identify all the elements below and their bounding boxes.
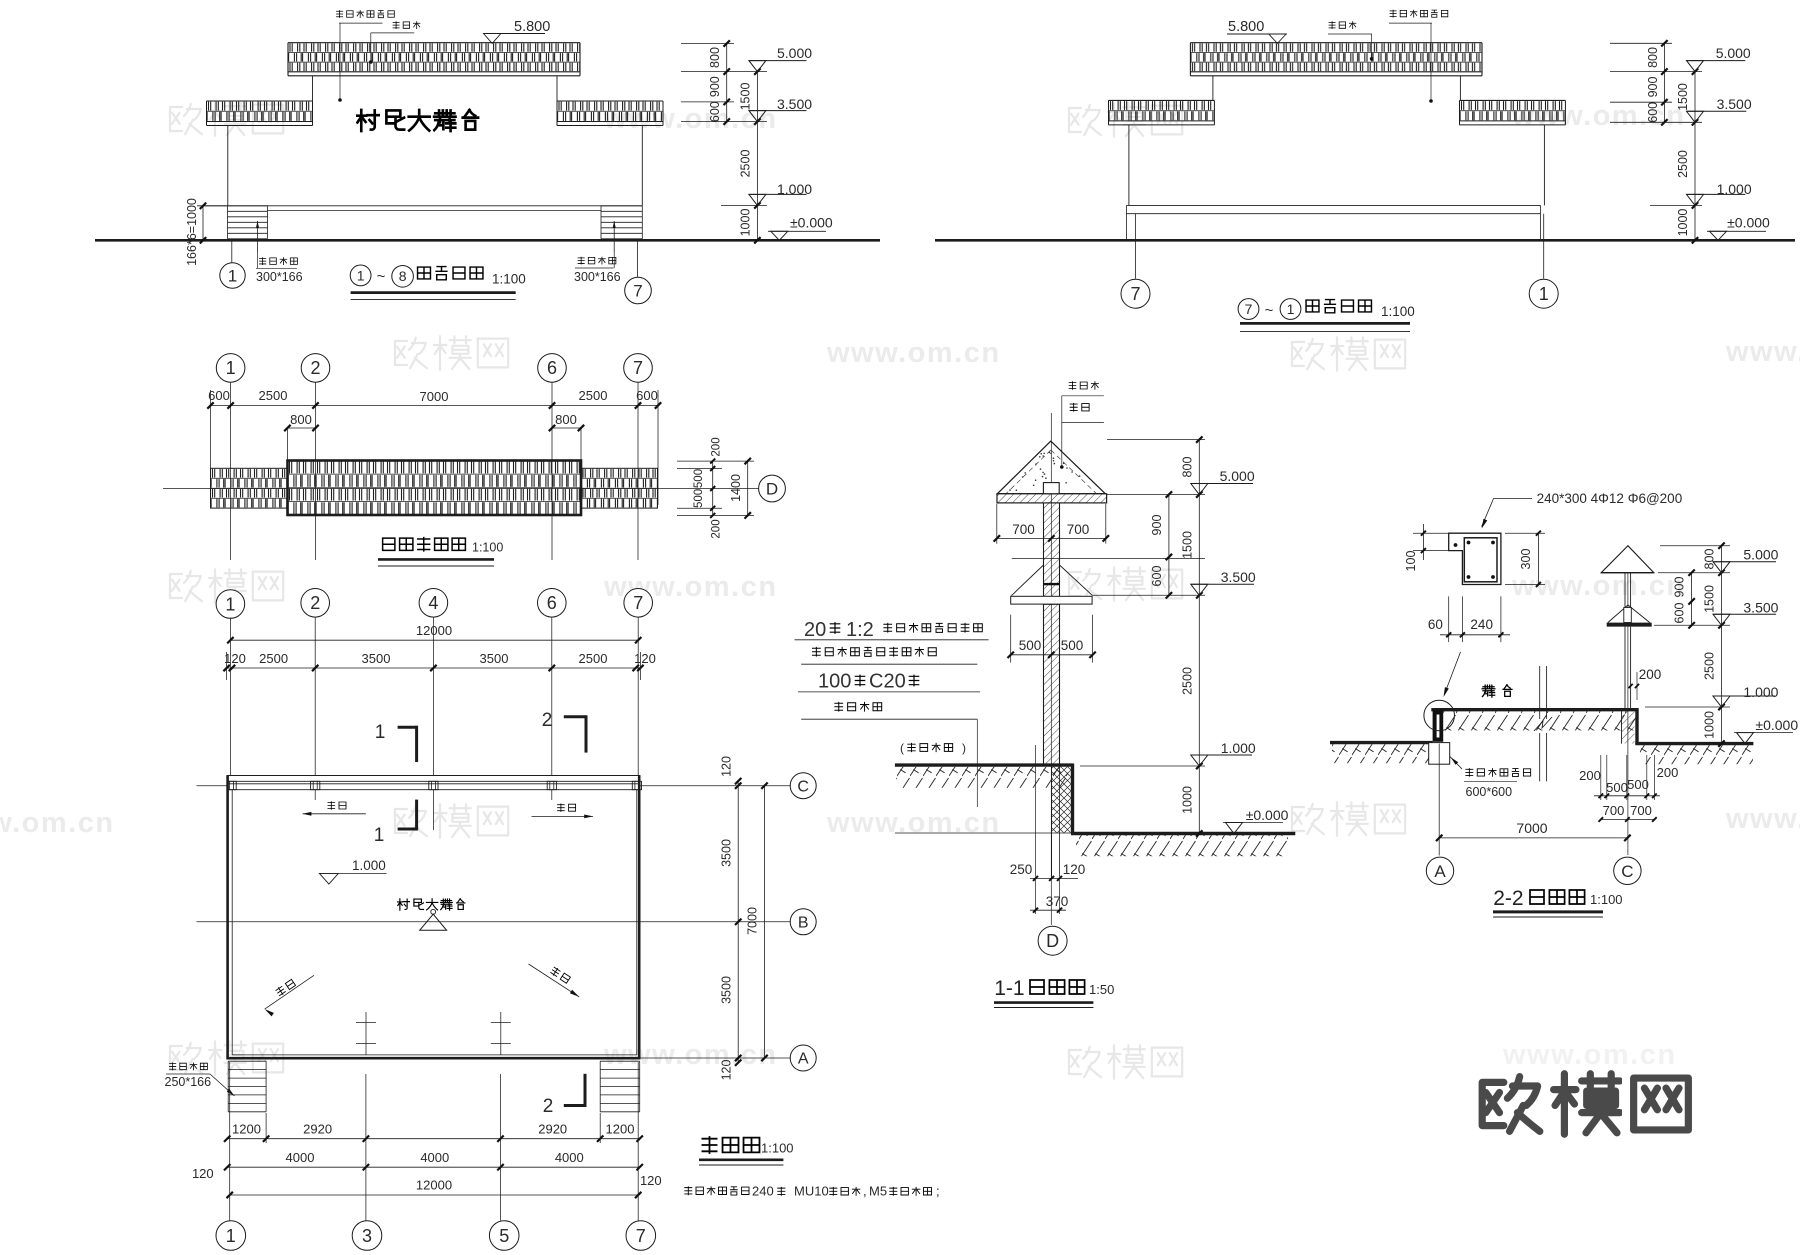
- floor plan: bottom grid bubbles 1 3 5 7: [216, 1221, 656, 1251]
- svg-text:800: 800: [1646, 47, 1660, 68]
- elevation 1-8: level 3.500: [749, 111, 766, 122]
- roof plan: 800 dims: [284, 412, 584, 462]
- watermark row D: [0, 802, 1800, 839]
- section 2-2: column upper: [1625, 573, 1631, 623]
- svg-text:1.000: 1.000: [1221, 740, 1256, 756]
- svg-text:7000: 7000: [746, 907, 760, 935]
- floor plan: section marker 1 lower: [374, 800, 418, 846]
- svg-text:800: 800: [555, 412, 577, 427]
- svg-text:3.500: 3.500: [1743, 600, 1778, 616]
- svg-text:3.500: 3.500: [777, 96, 812, 112]
- section 1-1: mid canopy: [1011, 558, 1205, 604]
- floor plan: top dim row 2: [223, 651, 655, 680]
- section 1-1: soil hatch under platform: [896, 767, 1068, 788]
- elevation 1-8: left steps: [228, 206, 268, 252]
- floor plan: grid line C stubs: [197, 785, 791, 787]
- svg-text:4000: 4000: [555, 1150, 584, 1165]
- section 2-2: mid break lines: [1534, 666, 1552, 781]
- elevation 1-8: left height dim 166*6=1000: [185, 198, 228, 266]
- svg-text:1-1: 1-1: [994, 977, 1024, 1000]
- section 2-2: level 3.500: [1713, 614, 1730, 625]
- svg-text:1200: 1200: [232, 1122, 261, 1137]
- svg-text:900: 900: [1646, 77, 1660, 98]
- floor plan: bottom dim row 2: [192, 1150, 662, 1188]
- elevation 7-1: ground line: [935, 239, 1795, 242]
- elevation 1-8: right dimension stack: [681, 40, 767, 243]
- svg-text:500: 500: [693, 489, 705, 508]
- section 1-1: top slab hatched: [997, 494, 1107, 503]
- watermark row A: [170, 100, 1686, 137]
- elevation 1-8: 5.800 level mark: [484, 19, 551, 43]
- elevation 7-1: right dimension stack: [1610, 40, 1702, 243]
- section 1-1: roof cone: [997, 441, 1105, 494]
- section 1-1: center axis: [1050, 413, 1052, 925]
- elevation 7-1: level 5.000: [1687, 61, 1704, 72]
- svg-text:±0.000: ±0.000: [1246, 807, 1289, 823]
- elevation 1-8: grid bubble 7: [625, 240, 652, 304]
- svg-text:,: ,: [863, 1184, 867, 1199]
- svg-text:2500: 2500: [579, 651, 608, 666]
- svg-text:2500: 2500: [579, 388, 608, 403]
- svg-text:1: 1: [1539, 284, 1549, 304]
- svg-text:3500: 3500: [719, 839, 733, 867]
- svg-text:7: 7: [633, 281, 642, 300]
- svg-text:5.000: 5.000: [777, 45, 812, 61]
- svg-text:1:100: 1:100: [1381, 304, 1415, 319]
- roof plan: title: [378, 537, 503, 566]
- floor plan: section marker 1 upper: [375, 722, 417, 762]
- svg-text:(: (: [900, 741, 904, 755]
- svg-text:1: 1: [357, 267, 365, 283]
- section 2-2: wall below platform at C: [1622, 710, 1635, 744]
- svg-text:7: 7: [633, 593, 643, 613]
- floor plan: bottom steps right: [600, 1061, 640, 1112]
- svg-text:120: 120: [640, 1173, 662, 1188]
- section 2-2: title: [1493, 887, 1623, 917]
- svg-text:1: 1: [375, 722, 386, 743]
- svg-text:3.500: 3.500: [1717, 96, 1752, 112]
- section 2-2: small canopy: [1607, 605, 1652, 625]
- elevation 1-8: level 5.000: [749, 61, 766, 72]
- svg-text:6: 6: [547, 358, 557, 378]
- section 2-2: stage platform: [1431, 710, 1637, 742]
- elevation 7-1: top label white wall paint: [1389, 10, 1448, 103]
- svg-text:1000: 1000: [1180, 786, 1194, 814]
- elevation 1-8: left side roof: [207, 101, 313, 126]
- svg-text:7: 7: [636, 1226, 646, 1246]
- elevation 1-8: wall below central roof: [312, 76, 314, 101]
- elevation 1-8: right steps: [601, 206, 642, 252]
- section 1-1: grid bubble D: [1038, 926, 1067, 955]
- svg-text:5: 5: [499, 1226, 509, 1246]
- svg-text:8: 8: [399, 268, 407, 284]
- svg-text:1: 1: [228, 266, 237, 285]
- svg-text:200: 200: [1657, 765, 1679, 780]
- svg-text:±0.000: ±0.000: [1727, 215, 1770, 231]
- svg-text:www.om.cn: www.om.cn: [0, 807, 115, 839]
- elevation 1-8: top label tile: [369, 21, 420, 64]
- floor plan: steps label bottom left: [165, 1063, 235, 1096]
- svg-text:D: D: [1046, 931, 1059, 951]
- svg-text:7: 7: [633, 358, 643, 378]
- svg-text:500: 500: [693, 469, 705, 488]
- svg-text:2920: 2920: [303, 1122, 332, 1137]
- svg-text:250: 250: [1010, 862, 1033, 877]
- section 2-2: column lower: [1625, 627, 1631, 710]
- svg-text:700: 700: [1603, 803, 1625, 818]
- section 2-2: leader to stage edge: [1444, 652, 1461, 697]
- section 2-2: grid bubbles A C: [1426, 857, 1641, 884]
- svg-text:120: 120: [192, 1166, 214, 1181]
- svg-text:2500: 2500: [1703, 652, 1717, 680]
- svg-text:7: 7: [1130, 284, 1140, 304]
- svg-text:900: 900: [1150, 515, 1164, 536]
- elevation 7-1: walls below central roof: [1212, 76, 1214, 101]
- svg-text:100: 100: [1404, 551, 1418, 572]
- svg-text:~: ~: [1265, 302, 1274, 319]
- elevation 7-1: level 1.000: [1687, 194, 1704, 205]
- watermark row E: [170, 1039, 1677, 1079]
- floor plan: grid verticals top: [230, 618, 638, 776]
- svg-text:700: 700: [1012, 522, 1035, 537]
- svg-text:200: 200: [1639, 667, 1662, 682]
- elevation 1-8: central roof band with tile hatch: [288, 43, 580, 76]
- section 2-2: step down and right ground: [1635, 708, 1753, 764]
- svg-text:6: 6: [547, 593, 557, 613]
- svg-text:1:100: 1:100: [1590, 892, 1623, 907]
- svg-text:B: B: [798, 914, 809, 931]
- svg-text:500: 500: [1019, 638, 1042, 653]
- elevation 7-1: level 3.500: [1687, 111, 1704, 122]
- svg-text:240: 240: [1470, 617, 1493, 632]
- elevation 7-1: top label 5.800: [1227, 19, 1287, 43]
- section 1-1: left spec text block: [795, 619, 989, 807]
- section 2-2: bottom dim 7000: [1436, 744, 1631, 856]
- section 2-2: level 1.000: [1713, 696, 1730, 707]
- svg-text:C20: C20: [869, 671, 906, 693]
- svg-text:800: 800: [1703, 549, 1717, 570]
- roof plan: center axis line: [163, 488, 759, 490]
- svg-text:900: 900: [708, 76, 722, 97]
- svg-text:3500: 3500: [480, 651, 509, 666]
- section 1-1: level 3.500: [1191, 584, 1208, 595]
- elevation 7-1: central roof band: [1190, 43, 1482, 76]
- section 1-1: foundation below platform: [1036, 745, 1072, 877]
- svg-text:2-2: 2-2: [1493, 887, 1523, 910]
- elevation 7-1: grid bubble 7: [1121, 214, 1150, 309]
- svg-text:1500: 1500: [1180, 531, 1194, 559]
- svg-text:3500: 3500: [719, 976, 733, 1004]
- svg-text:600*600: 600*600: [1466, 785, 1513, 799]
- svg-text:120: 120: [1063, 862, 1086, 877]
- floor plan: top grid bubbles 1 2 4 6 7: [216, 589, 652, 619]
- svg-text:www.om.cn: www.om.cn: [826, 337, 1001, 369]
- svg-text:7: 7: [1245, 301, 1253, 317]
- roof plan: grid bubble D: [759, 475, 786, 502]
- elevation 1-8: level +-0.000: [768, 215, 833, 241]
- svg-text:300*166: 300*166: [574, 270, 621, 284]
- svg-text:120: 120: [224, 651, 246, 666]
- floor plan: bottom dim row 1: [224, 1113, 643, 1143]
- roof plan: grid leader lines: [211, 382, 659, 560]
- section 2-2: beam dim 60 240: [1428, 596, 1510, 642]
- svg-text:1: 1: [226, 358, 236, 378]
- svg-text:;: ;: [936, 1184, 940, 1199]
- section 2-2: stage label: [1482, 685, 1512, 697]
- svg-text:500: 500: [1061, 638, 1084, 653]
- elevation 1-8: ground line: [95, 239, 880, 242]
- svg-text:300: 300: [1519, 549, 1533, 570]
- svg-text:3.500: 3.500: [1221, 569, 1256, 585]
- svg-text:2: 2: [543, 1096, 554, 1117]
- section 1-1: platform and ground: [895, 764, 1295, 834]
- floor plan: top dim 12000: [227, 623, 641, 643]
- svg-text:200: 200: [711, 519, 723, 538]
- big dark om.cn logo bottom right: [1482, 1074, 1688, 1134]
- svg-text:2: 2: [542, 710, 553, 731]
- section 2-2: beam dim 300: [1505, 531, 1545, 587]
- svg-text:5.800: 5.800: [514, 19, 550, 35]
- svg-text:800: 800: [290, 412, 312, 427]
- section 2-2: foundation под stage edge: [1429, 743, 1531, 799]
- svg-text:1: 1: [374, 825, 385, 846]
- svg-text:1: 1: [1287, 301, 1295, 317]
- svg-text:~: ~: [377, 268, 386, 285]
- elevation 1-8: big stage name text: [357, 110, 478, 131]
- section 1-1: cement floor label: [900, 741, 966, 755]
- section 1-1: level +-0.000: [1223, 807, 1289, 834]
- svg-text:2500: 2500: [739, 150, 753, 178]
- watermark row C: [170, 567, 1686, 603]
- svg-text:200: 200: [711, 437, 723, 456]
- svg-text:1500: 1500: [739, 83, 753, 111]
- floor plan: outer walls: [227, 776, 641, 1060]
- elevation 1-8: title: [350, 265, 526, 300]
- section 1-1: 500 500 dim: [1008, 615, 1096, 663]
- elevation 1-8: steps label left: [256, 252, 303, 284]
- svg-text:www.om.cn: www.om.cn: [1502, 1039, 1677, 1071]
- floor plan: right dim stack: [719, 756, 767, 1080]
- svg-text:±0.000: ±0.000: [1755, 717, 1798, 733]
- svg-text:1000: 1000: [739, 209, 753, 237]
- svg-text:800: 800: [708, 47, 722, 68]
- floor plan: grid stubs inside: [315, 790, 552, 1055]
- svg-text:1:2: 1:2: [846, 619, 874, 641]
- svg-text:700: 700: [1630, 803, 1652, 818]
- svg-text:5.000: 5.000: [1220, 468, 1255, 484]
- floor plan: stage name small + mark: [398, 899, 465, 931]
- svg-text:60: 60: [1428, 617, 1443, 632]
- svg-text:600: 600: [208, 388, 230, 403]
- svg-text:600: 600: [1673, 603, 1687, 624]
- floor plan: title: [699, 1136, 794, 1165]
- svg-text:2920: 2920: [538, 1122, 567, 1137]
- elevation 7-1: left side roof: [1109, 100, 1215, 125]
- elevation 1-8: grid bubble 1: [220, 240, 245, 288]
- elevation 7-1: title: [1238, 299, 1415, 332]
- svg-text:120: 120: [719, 756, 733, 777]
- svg-text:240: 240: [752, 1184, 774, 1199]
- svg-text:7000: 7000: [1516, 820, 1547, 836]
- svg-text:4000: 4000: [420, 1150, 449, 1165]
- floor plan: grid line B across: [197, 921, 791, 923]
- svg-text:2500: 2500: [1676, 150, 1690, 178]
- svg-text:1:100: 1:100: [492, 272, 526, 287]
- svg-text:MU10: MU10: [794, 1184, 829, 1199]
- section 2-2: beam detail outline: [1449, 533, 1501, 584]
- svg-text:2: 2: [310, 358, 320, 378]
- svg-text:4: 4: [428, 593, 438, 613]
- svg-text:1: 1: [226, 1226, 236, 1246]
- section 1-1: level 1.000: [1191, 755, 1208, 766]
- floor plan: drainage arrows upper: [303, 801, 593, 818]
- floor plan: section marker 2 upper: [542, 710, 586, 753]
- elevation 7-1: top label tile: [1328, 21, 1373, 60]
- svg-text:900: 900: [1673, 577, 1687, 598]
- section 1-1: 700 700 dim: [994, 504, 1109, 544]
- elevation 7-1: right side roof: [1460, 100, 1566, 125]
- roof plan: top dimension line: [207, 388, 661, 409]
- section 2-2: beam dim 100: [1404, 524, 1449, 571]
- svg-text:800: 800: [1180, 457, 1194, 478]
- roof plan: right narrow roof strip: [581, 468, 658, 508]
- section 2-2: bottom dims row1 200 500 500 200: [1579, 755, 1678, 800]
- svg-text:C: C: [1621, 862, 1633, 881]
- svg-text:3: 3: [362, 1226, 372, 1246]
- elevation 1-8: columns: [227, 126, 229, 206]
- section 1-1: soil hatch under lower ground: [1076, 835, 1288, 856]
- svg-text:2500: 2500: [1180, 667, 1194, 695]
- section 2-2: column axis: [1627, 546, 1629, 855]
- floor plan: level 1.000 marker: [319, 858, 386, 884]
- svg-text:1500: 1500: [1676, 83, 1690, 111]
- svg-text:www.om.cn: www.om.cn: [826, 807, 1001, 839]
- elevation 1-8: level 1.000: [749, 194, 766, 205]
- svg-text:120: 120: [634, 651, 656, 666]
- svg-text:1400: 1400: [729, 474, 743, 502]
- elevation 1-8: right side roof: [557, 101, 663, 126]
- svg-text:www.om.cn: www.om.cn: [1725, 803, 1800, 835]
- floor plan: bottom steps left: [228, 1061, 266, 1112]
- svg-text:2500: 2500: [259, 651, 288, 666]
- floor plan: right grid bubbles C B A: [790, 773, 816, 1071]
- elevation 7-1: columns: [1128, 125, 1130, 205]
- elevation 1-8: steps label right: [574, 252, 621, 284]
- svg-text:240*300 4Φ12 Φ6@200: 240*300 4Φ12 Φ6@200: [1537, 491, 1683, 506]
- section 2-2: dim 200 at column: [1629, 667, 1662, 700]
- elevation 7-1: grid bubble 1: [1529, 214, 1558, 309]
- section 2-2: bottom dims row2 700 700: [1599, 803, 1657, 822]
- svg-text:700: 700: [1067, 522, 1090, 537]
- svg-text:500: 500: [1606, 780, 1628, 795]
- svg-text:C: C: [797, 778, 809, 795]
- section 1-1: column with hatch: [1044, 503, 1060, 765]
- svg-text:500: 500: [1627, 777, 1649, 792]
- svg-text:±0.000: ±0.000: [790, 215, 833, 231]
- svg-text:1: 1: [225, 594, 235, 614]
- svg-text:M5: M5: [869, 1184, 887, 1199]
- svg-text:): ): [962, 741, 966, 755]
- svg-text:A: A: [1434, 862, 1446, 881]
- svg-text:250*166: 250*166: [165, 1075, 212, 1089]
- svg-text:200: 200: [1579, 768, 1601, 783]
- section 1-1: dim 250 120: [1010, 862, 1086, 881]
- section 2-2: level 5.000: [1713, 562, 1730, 573]
- svg-text:1.000: 1.000: [1717, 181, 1752, 197]
- svg-text:370: 370: [1046, 894, 1069, 909]
- svg-text:3500: 3500: [362, 651, 391, 666]
- roof plan: left narrow roof strip: [211, 468, 288, 508]
- section 1-1: right dim stack: [1080, 436, 1205, 836]
- svg-text:1000: 1000: [1703, 711, 1717, 739]
- svg-text:166*6=1000: 166*6=1000: [185, 198, 199, 266]
- svg-text:600: 600: [1150, 566, 1164, 587]
- roof plan: right side dims 200 500 500 200: [677, 437, 754, 538]
- floor plan: bottom grid verticals: [230, 1062, 639, 1221]
- svg-text:5.000: 5.000: [1743, 547, 1778, 563]
- section 2-2: right dim stack: [1645, 543, 1730, 747]
- floor plan: section marker 2 lower: [543, 1074, 587, 1117]
- section 2-2: stage floor hatch: [1443, 711, 1637, 730]
- svg-text:1.000: 1.000: [1743, 684, 1778, 700]
- svg-text:1.000: 1.000: [777, 181, 812, 197]
- svg-text:300*166: 300*166: [256, 270, 303, 284]
- roof plan: central wide roof: [288, 461, 582, 516]
- floor plan: grid line A stub right: [640, 1057, 790, 1059]
- svg-text:5.800: 5.800: [1228, 19, 1264, 35]
- section 1-1: labels top: [1060, 381, 1104, 469]
- svg-text:1000: 1000: [1676, 209, 1690, 237]
- svg-text:1500: 1500: [1703, 585, 1717, 613]
- svg-text:D: D: [766, 479, 778, 498]
- svg-text:1:50: 1:50: [1089, 982, 1114, 997]
- svg-text:1200: 1200: [606, 1122, 635, 1137]
- section 2-2: ground left: [1330, 743, 1433, 764]
- section 2-2: beam leader text: [1482, 491, 1683, 529]
- section 1-1: title: [994, 977, 1114, 1008]
- svg-text:12000: 12000: [416, 1178, 452, 1193]
- floor plan: column marks on top wall: [227, 781, 642, 789]
- svg-text:7000: 7000: [420, 389, 449, 404]
- floor plan: masonry note: [684, 1184, 939, 1199]
- svg-text:2500: 2500: [259, 388, 288, 403]
- svg-text:600: 600: [708, 101, 722, 122]
- svg-text:600: 600: [636, 388, 658, 403]
- svg-text:600: 600: [1646, 102, 1660, 123]
- svg-text:www.om.cn: www.om.cn: [1725, 336, 1800, 368]
- svg-text:1:100: 1:100: [761, 1141, 794, 1156]
- svg-text:12000: 12000: [416, 623, 452, 638]
- elevation 7-1: level +-0.000: [1707, 215, 1770, 241]
- svg-text:120: 120: [719, 1060, 733, 1081]
- svg-text:A: A: [798, 1051, 809, 1068]
- section 2-2: level +-0.000: [1734, 717, 1798, 744]
- section 2-2: detail circle at stage edge: [1424, 700, 1455, 731]
- roof plan: grid bubbles 1 2 6 7: [216, 354, 652, 383]
- section 1-1: level 5.000: [1191, 484, 1208, 495]
- svg-text:100: 100: [818, 671, 851, 693]
- svg-text:2: 2: [310, 593, 320, 613]
- elevation 1-8: platform: [203, 206, 642, 211]
- section 2-2: cone roof: [1601, 546, 1654, 573]
- section 1-1: column stub above slab: [1043, 483, 1059, 494]
- svg-text:4000: 4000: [286, 1150, 315, 1165]
- svg-text:5.000: 5.000: [1716, 45, 1751, 61]
- svg-text:20: 20: [804, 619, 826, 641]
- svg-text:1:100: 1:100: [472, 541, 503, 555]
- floor plan: drainage arrows lower diagonals: [265, 964, 580, 1016]
- watermark row B: [395, 336, 1800, 371]
